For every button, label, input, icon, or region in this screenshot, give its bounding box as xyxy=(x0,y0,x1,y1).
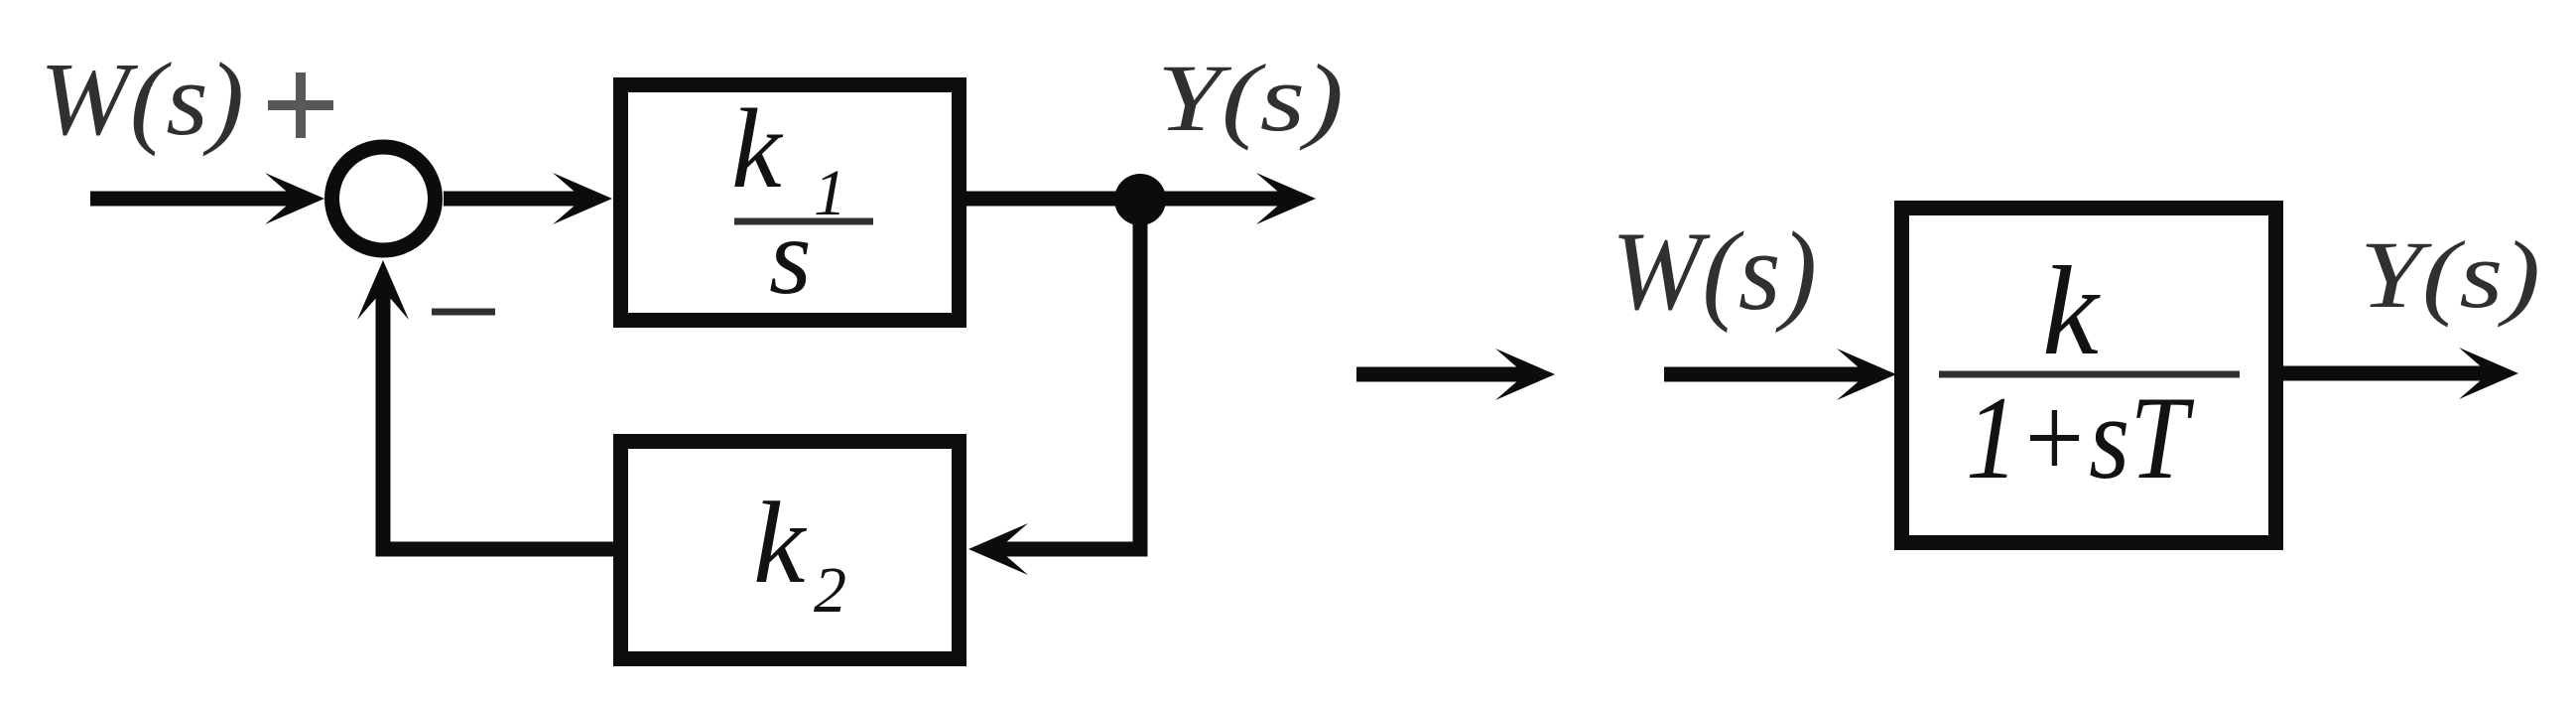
svg-text:1+sT: 1+sT xyxy=(1966,371,2194,503)
label W(s)+ input of left diagram xyxy=(40,41,333,157)
svg-text:k: k xyxy=(753,478,808,608)
wire input arrow into summing junction xyxy=(90,173,324,224)
block k1/s xyxy=(621,85,960,321)
svg-text:W(s): W(s) xyxy=(40,41,244,157)
wire block k2 output to left vertical up into summing junction xyxy=(357,260,613,549)
svg-text:k: k xyxy=(2042,240,2101,381)
block k2 xyxy=(621,442,960,659)
wire summing junction to block k1/s xyxy=(444,173,612,224)
svg-text:W(s): W(s) xyxy=(1611,210,1817,334)
summing junction xyxy=(332,147,436,250)
wire input arrow into block k/(1+sT) xyxy=(1664,349,1896,400)
svg-text:k: k xyxy=(731,85,784,211)
equivalence arrow between diagrams xyxy=(1356,349,1555,400)
svg-text:Y(s): Y(s) xyxy=(2360,221,2540,328)
svg-text:s: s xyxy=(769,196,812,317)
svg-text:Y(s): Y(s) xyxy=(1157,45,1344,151)
svg-text:2: 2 xyxy=(814,554,846,627)
node (takeoff point) xyxy=(1114,174,1166,225)
block k/(1+sT) xyxy=(1902,209,2276,543)
wire block k1/s output to node and Y(s) arrow xyxy=(966,173,1316,224)
wire output arrow of right block xyxy=(2283,348,2518,399)
minus sign on feedback input xyxy=(432,309,495,316)
wire node down to feedback line into block k2 xyxy=(968,200,1140,575)
